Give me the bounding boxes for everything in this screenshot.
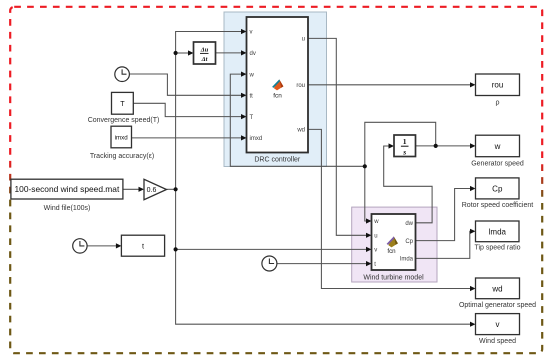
arrowhead: DRC T input [241, 114, 247, 119]
svg-text:Cp: Cp [492, 184, 503, 193]
MATLAB fcn logo (turbine) [387, 236, 398, 254]
svg-text:fcn: fcn [387, 248, 396, 255]
svg-text:rou: rou [296, 83, 305, 89]
wire: v branch to turbine v input [176, 248, 367, 250]
svg-text:Convergence speed(T): Convergence speed(T) [88, 117, 160, 124]
svg-text:v: v [496, 320, 500, 329]
arrowhead: DRC dv input [241, 50, 247, 55]
wire: clock1 to DRC tt input [129, 74, 242, 95]
arrowhead: DRC imxd input [241, 135, 247, 140]
svg-text:v: v [250, 30, 253, 36]
svg-text:imxd: imxd [115, 135, 129, 142]
Cp display block [476, 178, 520, 199]
svg-text:T: T [250, 115, 254, 121]
svg-text:rou: rou [492, 81, 504, 90]
wire: derivative block to DRC dv input [216, 52, 243, 54]
svg-text:fcn: fcn [273, 93, 282, 100]
gain 0.6 triangle [144, 179, 167, 199]
arrowhead: rou display input [470, 82, 476, 87]
svg-text:ρ: ρ [496, 100, 500, 107]
wire: turbine lmda output to lmda display [416, 231, 472, 258]
svg-text:DRC controller: DRC controller [254, 157, 301, 164]
svg-text:wd: wd [296, 128, 305, 134]
rou display block [476, 74, 520, 96]
svg-text:lmda: lmda [489, 227, 507, 236]
clock source 3 [262, 256, 277, 271]
arrowhead: into derivative block [188, 50, 194, 55]
svg-text:u: u [302, 37, 305, 43]
wire: DRC rou output to rou display [308, 84, 471, 86]
junction: gain output node [174, 187, 178, 191]
v display block [476, 314, 520, 335]
junction: integrator output node [434, 144, 438, 148]
svg-text:s: s [402, 148, 406, 157]
arrowhead: turbine w input [366, 218, 372, 223]
arrowhead: DRC v input [241, 29, 247, 34]
svg-text:Wind speed: Wind speed [479, 338, 516, 345]
arrowhead: t block input [116, 243, 122, 248]
arrowhead: DRC w input [241, 72, 247, 77]
wire: imxd block to DRC imxd input [132, 137, 243, 139]
wire: T block to DRC T input [133, 103, 242, 116]
svg-text:Wind turbine model: Wind turbine model [363, 275, 424, 282]
wire: w feedback branch to DRC w input [230, 74, 364, 166]
svg-text:wd: wd [491, 284, 502, 293]
arrowhead: DRC tt input [241, 93, 247, 98]
integrator 1/s block [394, 135, 416, 157]
svg-text:dv: dv [250, 51, 256, 57]
svg-text:tt: tt [250, 94, 254, 100]
wire: clock3 to turbine t input [277, 263, 367, 265]
wire: integrator output to w display [416, 145, 472, 147]
arrowhead: gain input [139, 187, 145, 192]
Wind turbine model function block [372, 214, 416, 270]
svg-text:100-second wind speed.mat: 100-second wind speed.mat [15, 184, 120, 194]
svg-text:Tracking accuracy(ε): Tracking accuracy(ε) [90, 153, 154, 160]
junction: w feedback split node [363, 164, 367, 168]
svg-text:dw: dw [405, 221, 413, 227]
svg-text:Tip speed ratio: Tip speed ratio [474, 245, 520, 252]
svg-text:0.6: 0.6 [147, 187, 157, 194]
svg-text:Generator speed: Generator speed [471, 161, 524, 168]
T constant block [112, 92, 134, 114]
junction: v line at derivative tap [174, 51, 178, 55]
arrowhead: turbine u input [366, 233, 372, 238]
DRC controller shaded area [224, 12, 327, 167]
arrowhead: integrator input [389, 143, 395, 148]
arrowhead: Cp display input [470, 186, 476, 191]
svg-text:imxd: imxd [250, 136, 263, 142]
imxd constant block [111, 126, 132, 148]
arrowhead: w display input [470, 143, 476, 148]
wire: gain output into v line [167, 188, 176, 190]
wd display block [476, 278, 520, 299]
wire: mat-file block to gain input [123, 188, 140, 190]
wire: clock2 to t block [87, 245, 117, 247]
svg-text:v: v [374, 248, 377, 254]
clock source 1 [115, 67, 130, 82]
svg-text:w: w [249, 72, 255, 78]
clock source 2 [73, 239, 87, 253]
wire: turbine Cp output to Cp display [416, 189, 472, 241]
arrowhead: wd display input [470, 286, 476, 291]
arrowhead: turbine t input [366, 261, 372, 266]
arrowhead: lmda display input [470, 229, 476, 234]
svg-text:Optimal generator speed: Optimal generator speed [459, 302, 536, 309]
svg-text:Cp: Cp [405, 239, 413, 245]
wire: turbine dw output to integrator input [384, 146, 432, 223]
svg-text:Δt: Δt [201, 56, 208, 63]
svg-text:1: 1 [403, 137, 407, 146]
t To-Workspace block [121, 235, 164, 256]
arrowhead: v display input [470, 322, 476, 327]
svg-text:T: T [120, 99, 125, 108]
wire: DRC wd output down to wd display [308, 129, 471, 288]
svg-text:w: w [494, 142, 501, 151]
Wind turbine model shaded area [352, 207, 437, 282]
arrowhead: turbine v input [366, 247, 372, 252]
svg-text:lmda: lmda [400, 257, 414, 263]
w display block [476, 135, 520, 157]
lmda display block [476, 221, 520, 242]
derivative block du/dt [194, 42, 216, 64]
wire: w feedback from integrator output to turbine w input [365, 122, 436, 221]
svg-text:Rotor speed coefficient: Rotor speed coefficient [462, 202, 534, 209]
wire: DRC u output down to turbine u input [308, 38, 367, 235]
MATLAB fcn logo (DRC) [272, 79, 283, 99]
wire: tap to derivative block [176, 52, 189, 54]
wind file source block [11, 179, 123, 199]
svg-text:Wind file(100s): Wind file(100s) [44, 205, 91, 212]
svg-text:Δu: Δu [200, 46, 209, 53]
DRC controller function block [247, 17, 309, 153]
svg-text:u: u [374, 234, 377, 240]
junction: v line to turbine branch [174, 247, 178, 251]
svg-text:w: w [373, 219, 379, 225]
wire: v main vertical line from DRC v input down to Wind speed display [176, 32, 471, 325]
